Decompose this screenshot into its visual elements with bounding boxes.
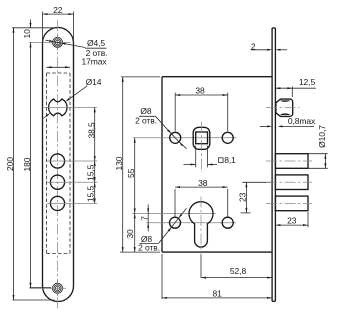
svg-text:2 отв.: 2 отв. — [138, 242, 160, 252]
dim 130 — [114, 77, 160, 252]
cylinder extension to 52,8 — [200, 255, 202, 278]
dim 23 vertical — [238, 182, 272, 213]
dim Ø10,7 — [308, 125, 328, 168]
upper left Ø8 hole — [170, 132, 181, 143]
Ø14 hole centerline — [44, 106, 97, 108]
dim 200 — [5, 28, 54, 300]
top screw hole centerline — [30, 35, 71, 51]
latch centerline — [266, 107, 300, 109]
handle follower horizontal centerline — [133, 137, 237, 139]
dim 38 upper — [175, 85, 228, 131]
svg-text:Ø10,7: Ø10,7 — [317, 125, 327, 148]
svg-text:30: 30 — [125, 229, 135, 239]
faceplate front view outline — [43, 28, 74, 302]
deadbolt pin 2 — [275, 175, 308, 190]
faceplate bolt hole 1 — [50, 154, 64, 168]
dim 52,8 — [201, 266, 272, 279]
bolt hole 1 centerline — [47, 160, 97, 162]
svg-text:200: 200 — [5, 157, 15, 171]
faceplate vertical centerline — [57, 20, 59, 309]
dim Ø4,5 leader with arrows — [46, 40, 107, 48]
svg-text:22: 22 — [53, 5, 63, 15]
dim 0,8max — [260, 116, 316, 127]
dim Ø14 diagonal leader — [44, 86, 88, 118]
euro cylinder hole — [189, 202, 213, 247]
svg-text:38: 38 — [195, 85, 205, 95]
dim 17max — [47, 57, 108, 69]
svg-text:Ø14: Ø14 — [86, 77, 102, 87]
dim line chain 38,5-15,5-15,5 — [94, 107, 96, 203]
dim Ø8 upper leader — [139, 116, 187, 148]
svg-text:7: 7 — [140, 216, 150, 221]
square follower boss — [193, 127, 210, 149]
square spindle hole 8,1 — [196, 132, 208, 144]
lower left Ø8 hole — [170, 217, 181, 228]
dim □ 8,1 — [184, 146, 237, 168]
dim 30 — [125, 213, 136, 252]
svg-text:8,1: 8,1 — [224, 155, 236, 165]
svg-text:2: 2 — [251, 41, 256, 51]
dim 22 — [43, 5, 74, 44]
dim 2 — [251, 41, 288, 51]
dim 23 pins — [275, 212, 308, 227]
dim 10 — [12, 20, 53, 48]
svg-text:10: 10 — [22, 29, 32, 39]
upper right Ø8 hole — [222, 132, 233, 143]
svg-text:180: 180 — [22, 157, 32, 171]
dim 12,5 — [275, 77, 316, 97]
dim 55 — [126, 138, 136, 214]
dim 81 — [162, 254, 272, 299]
cylinder axis extension line — [132, 212, 216, 214]
bolt hole 2 centerline — [47, 181, 97, 183]
faceplate edge view — [272, 28, 275, 301]
label 38,5 — [86, 122, 96, 139]
label 15,5 lower — [86, 186, 96, 203]
svg-text:12,5: 12,5 — [299, 77, 316, 87]
bottom screw hole centerline — [30, 280, 66, 297]
svg-text:38,5: 38,5 — [86, 122, 96, 139]
svg-text:15,5: 15,5 — [86, 186, 96, 203]
svg-text:130: 130 — [114, 156, 124, 170]
dim 180 — [22, 42, 51, 287]
svg-text:23: 23 — [238, 192, 248, 202]
label 15,5 upper — [86, 164, 96, 181]
svg-text:52,8: 52,8 — [230, 266, 247, 276]
label Ø8 2 отв. lower — [138, 234, 160, 253]
lower right Ø8 hole — [222, 217, 233, 228]
label Ø14 — [86, 77, 102, 87]
latch bolt — [276, 99, 293, 116]
lock body outline — [162, 77, 272, 252]
svg-text:23: 23 — [287, 215, 297, 225]
lower row centerline — [146, 222, 236, 224]
svg-text:2 отв.: 2 отв. — [135, 116, 157, 126]
svg-text:81: 81 — [212, 288, 222, 298]
bottom screw hole — [53, 283, 63, 293]
cylinder vertical centerline — [200, 197, 202, 256]
svg-text:Ø4,5: Ø4,5 — [87, 38, 105, 48]
faceplate bolt hole 2 — [50, 175, 64, 189]
svg-text:17max: 17max — [81, 57, 107, 67]
dim 7 — [140, 205, 150, 232]
svg-text:55: 55 — [126, 168, 136, 178]
deadbolt pin 3 — [275, 196, 308, 211]
svg-text:38: 38 — [198, 178, 208, 188]
svg-text:0,8max: 0,8max — [288, 116, 316, 126]
Ø14 latch hole — [49, 99, 68, 116]
pin 2 centerline — [266, 181, 312, 183]
deadbolt pin 1 — [275, 154, 308, 169]
top screw hole — [53, 37, 63, 47]
label Ø4,5 2 отв. — [86, 38, 108, 58]
label Ø8 2 отв. upper — [135, 106, 157, 125]
dim Ø8 lower leader — [140, 208, 187, 243]
follower vertical centerline — [201, 122, 203, 173]
pin 1 centerline — [266, 160, 312, 162]
dim 38 lower — [175, 178, 228, 216]
pin 3 centerline — [266, 202, 312, 204]
faceplate bolt hole 3 — [50, 196, 64, 210]
bolt hole 3 centerline — [47, 202, 97, 204]
svg-text:15,5: 15,5 — [86, 164, 96, 181]
hidden lock-body outline (dashed) behind faceplate — [47, 73, 71, 254]
